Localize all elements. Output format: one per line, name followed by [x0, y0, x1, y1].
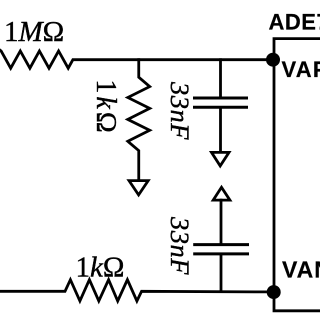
svg-text:33nF: 33nF: [165, 216, 195, 275]
svg-text:VAN: VAN: [282, 257, 320, 283]
svg-text:VAP: VAP: [282, 57, 320, 82]
svg-text:1kΩ: 1kΩ: [76, 252, 125, 284]
svg-text:1MΩ: 1MΩ: [4, 16, 64, 48]
svg-text:33nF: 33nF: [165, 81, 195, 140]
svg-text:1kΩ: 1kΩ: [90, 79, 121, 135]
svg-text:ADE7758: ADE7758: [269, 10, 320, 35]
